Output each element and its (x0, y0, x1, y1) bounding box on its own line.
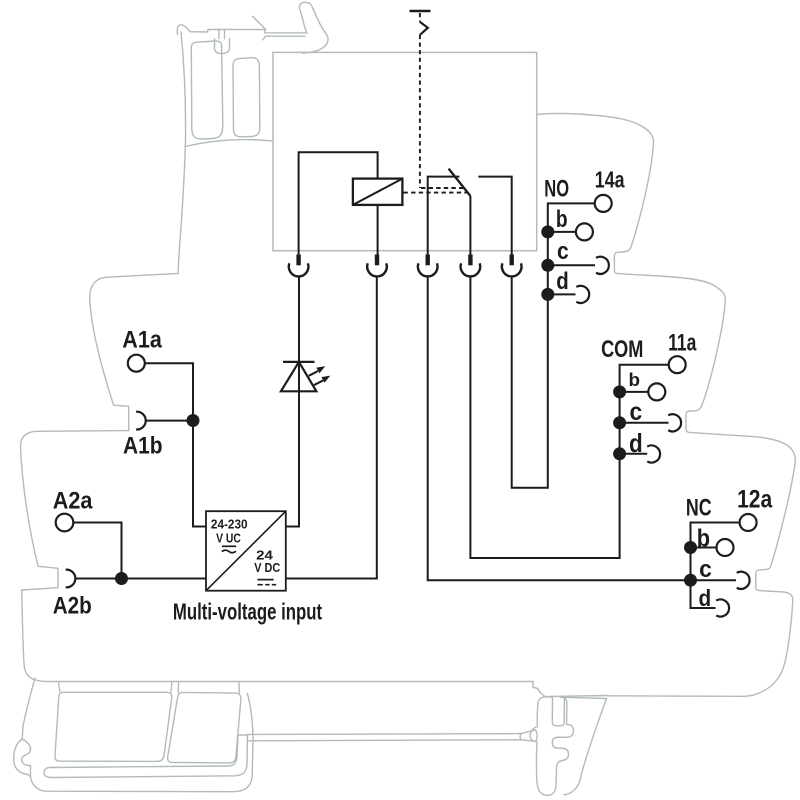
svg-text:c: c (557, 238, 569, 265)
svg-text:b: b (556, 206, 568, 233)
svg-text:NO: NO (544, 175, 569, 202)
svg-text:b: b (697, 525, 710, 553)
svg-text:A2a: A2a (53, 487, 93, 514)
svg-text:A1a: A1a (122, 326, 162, 353)
svg-text:COM: COM (601, 336, 643, 363)
svg-text:24-230: 24-230 (211, 516, 248, 531)
svg-text:11a: 11a (668, 329, 697, 356)
svg-text:14a: 14a (595, 167, 625, 193)
svg-text:A2b: A2b (53, 593, 92, 620)
svg-text:b: b (629, 370, 641, 390)
svg-text:V UC: V UC (216, 530, 241, 545)
svg-text:V DC: V DC (254, 560, 281, 575)
svg-text:12a: 12a (737, 485, 773, 513)
svg-text:d: d (556, 268, 569, 295)
svg-text:NC: NC (686, 495, 712, 522)
svg-text:d: d (699, 585, 712, 611)
svg-text:Multi-voltage input: Multi-voltage input (173, 598, 322, 624)
svg-text:A1b: A1b (123, 432, 163, 459)
svg-text:c: c (699, 556, 712, 583)
svg-text:c: c (630, 398, 643, 426)
svg-text:d: d (629, 428, 643, 458)
